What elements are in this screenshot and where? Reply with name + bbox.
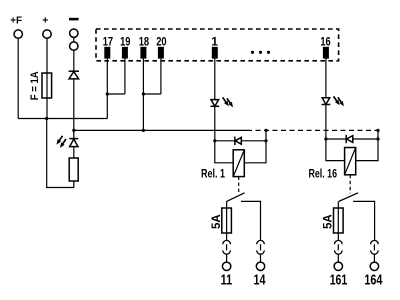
junction rel16 left — [324, 137, 327, 140]
svg-text:19: 19 — [120, 34, 131, 48]
wire terminal 16 down — [325, 59, 327, 98]
fuse F17 5A — [334, 208, 344, 233]
terminal 1 — [212, 47, 218, 59]
fuse F1 — [42, 73, 52, 98]
minus bus dashed — [247, 129, 379, 131]
LED V16 arrows — [332, 95, 342, 106]
terminal +F — [14, 30, 22, 38]
svg-text:17: 17 — [103, 34, 114, 48]
terminal 14 — [256, 262, 264, 270]
terminal 17 — [104, 47, 110, 59]
dashed terminal box — [96, 29, 339, 61]
wire pole 11 down — [226, 201, 228, 240]
svg-text:164: 164 — [364, 271, 382, 288]
wire rel16 right to bus — [377, 130, 379, 139]
wire diode to bus — [73, 79, 75, 130]
wire coil1 left — [215, 141, 233, 163]
label minus — [69, 18, 79, 21]
wire +F down — [17, 38, 19, 118]
wire 17 down — [106, 59, 108, 94]
fixed contact rel1 — [241, 201, 261, 240]
fixed contact rel16 — [353, 201, 375, 240]
junction rel1 left — [213, 139, 216, 142]
svg-text:20: 20 — [156, 34, 167, 48]
diode branch rel16 — [326, 138, 378, 140]
mechanical link rel16 — [349, 175, 351, 194]
junction rel16 right — [376, 137, 379, 140]
LED V1 arrows — [221, 96, 231, 107]
terminal 161 — [334, 262, 342, 270]
svg-text:+F: +F — [10, 15, 22, 27]
terminal 16 — [323, 47, 329, 59]
junction 18 — [142, 92, 145, 95]
minus bus solid — [74, 129, 247, 131]
relay coil K1 — [233, 150, 244, 177]
wire between minus terminals — [73, 37, 75, 42]
LED V16 — [322, 98, 330, 105]
wire coil1 right — [244, 141, 266, 163]
wire LED1 to branch — [214, 106, 216, 141]
wire 17-19 join — [107, 93, 125, 95]
resistor R1 — [69, 158, 78, 181]
svg-text:18: 18 — [139, 34, 150, 48]
junction 17 — [106, 92, 109, 95]
terminal 18 — [140, 47, 146, 59]
wire LED16 to branch — [325, 105, 327, 140]
diode D2 freewheel — [234, 137, 236, 145]
diode D1 protection — [69, 70, 79, 72]
wire 18-20 join — [143, 93, 161, 95]
terminal minus upper — [70, 29, 78, 37]
wire pole 161 down — [337, 201, 339, 240]
svg-text:F = 1A: F = 1A — [29, 71, 41, 100]
wire 20 down — [160, 59, 162, 94]
wire + down through fuse — [46, 38, 48, 118]
svg-text:16: 16 — [320, 34, 331, 48]
fuse F2 5A — [222, 208, 232, 233]
terminal + — [43, 30, 51, 38]
junction supply — [45, 117, 48, 120]
wire 19 down — [124, 59, 126, 94]
relay coil K16 — [345, 148, 356, 175]
wire rel1 right to bus — [265, 130, 267, 140]
terminal 20 — [158, 47, 164, 59]
terminal 19 — [122, 47, 128, 59]
junction rel1 right — [264, 139, 267, 142]
junction bus left — [72, 129, 75, 132]
disconnect 161 — [335, 240, 343, 244]
junction bus rel1 — [264, 129, 267, 132]
wire 17 to supply rail — [106, 94, 108, 119]
terminal 11 — [222, 262, 230, 270]
mechanical link rel1 — [238, 177, 240, 194]
svg-text:14: 14 — [254, 271, 266, 288]
svg-text:Rel. 16: Rel. 16 — [309, 167, 338, 181]
diode D17 freewheel — [345, 135, 347, 143]
wire terminal 1 down — [214, 59, 216, 100]
svg-text:Rel. 1: Rel. 1 — [201, 167, 225, 181]
contact blade rel1 — [227, 193, 245, 202]
svg-text:5A: 5A — [211, 214, 223, 229]
power LED arrows — [55, 135, 65, 146]
wire coil16 right — [356, 139, 378, 161]
disconnect 14 — [257, 240, 265, 244]
terminal minus lower — [70, 42, 78, 50]
LED V1 — [211, 100, 219, 107]
svg-text:161: 161 — [330, 271, 348, 288]
ellipsis dots — [251, 51, 254, 54]
wire coil16 left — [326, 139, 345, 161]
power LED — [73, 130, 75, 138]
svg-text:1: 1 — [211, 34, 218, 48]
disconnect 11 — [223, 240, 231, 244]
junction bus rel16 — [376, 129, 379, 132]
disconnect 164 — [371, 240, 379, 244]
supply rail — [18, 118, 107, 120]
svg-text:5A: 5A — [323, 214, 335, 229]
terminal 164 — [370, 262, 378, 270]
wire resistor return — [47, 119, 74, 188]
diode branch rel1 — [215, 140, 266, 142]
junction 18 bus — [142, 129, 145, 132]
svg-text:11: 11 — [221, 271, 233, 288]
wire minus down to diode — [73, 50, 75, 71]
contact blade rel16 — [339, 193, 358, 202]
wire 18 down — [142, 59, 144, 131]
svg-text:+: + — [42, 15, 48, 27]
